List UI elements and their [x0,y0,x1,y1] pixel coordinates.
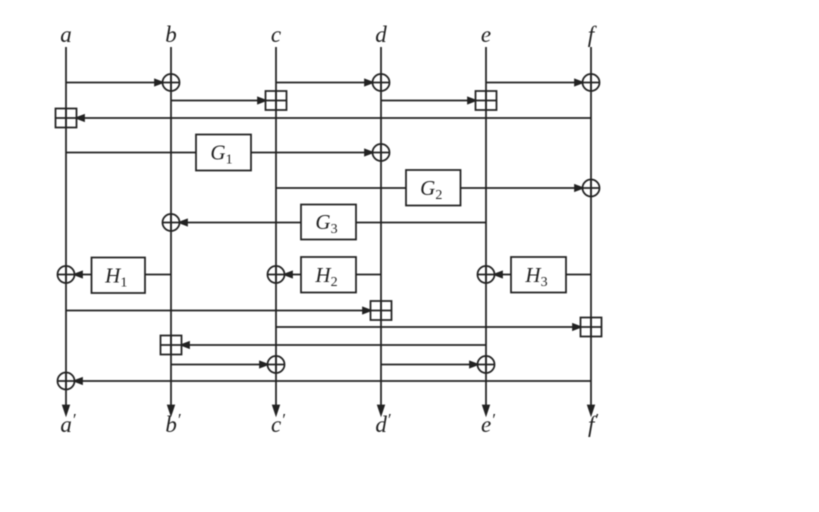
svg-text:e′: e′ [481,410,495,437]
svg-text:c′: c′ [271,410,285,437]
xor at a row12 [58,373,75,390]
svg-text:c: c [271,22,281,47]
xor at c row7 [268,266,285,283]
xor at b row1 [163,74,180,91]
xor at d row4 [373,144,390,161]
wire b to xor at c [171,362,268,368]
svg-text:d′: d′ [375,410,391,437]
svg-text:b: b [165,22,177,47]
wire a to add at d [66,308,371,314]
wire a to xor at b [66,80,163,86]
wire e to G3 [356,222,486,224]
wire vertical line f [588,47,594,415]
svg-text:d: d [375,22,387,47]
xor at d row1 [373,74,390,91]
svg-text:e: e [481,22,491,47]
function box G3 [301,205,356,240]
wire f to add at a [77,115,592,121]
wire f to xor at a [75,378,592,384]
wire H1 to xor at a [75,272,92,278]
function box H3 [511,257,566,293]
svg-text:a′: a′ [60,410,76,437]
wire vertical line b [168,47,174,415]
wire c to G2 [276,187,406,189]
wire G2 to xor at f [461,185,583,191]
wire vertical line d [378,47,384,415]
xor at a row7 [58,266,75,283]
xor at c row11 [268,356,285,373]
wire vertical line c [273,47,279,415]
wire e to add at b [182,342,487,348]
wire f to H3 [566,274,591,276]
wire c to xor at d [276,80,373,86]
wire a to G1 [66,152,196,154]
wire e to xor at f [486,80,583,86]
wire b to H1 [145,274,171,276]
xor at e row7 [478,266,495,283]
modular-add box at b row10 [161,336,182,355]
wire c to add at f [276,324,581,330]
wire G3 to xor at b [180,220,302,226]
wire d to xor at e [381,362,478,368]
wire H2 to xor at c [285,272,302,278]
wire G1 to xor at d [251,150,373,156]
svg-text:b′: b′ [165,410,181,437]
modular-add box at d row8 [371,301,392,320]
function box G1 [196,135,251,171]
wire b to add at c [171,98,266,104]
wire vertical line a [63,47,69,415]
wire d to add at e [381,98,476,104]
svg-text:a: a [60,22,72,47]
modular-add box at a row3 [56,109,77,128]
svg-text:f′: f′ [588,410,598,437]
wire H3 to xor at e [495,272,512,278]
function box H2 [301,257,356,293]
xor at b row6 [163,214,180,231]
xor at f row1 [583,74,600,91]
xor at e row11 [478,356,495,373]
modular-add box at e row2 [476,91,497,110]
function box H1 [92,258,146,294]
xor at f row5 [583,180,600,197]
function box G2 [406,170,461,206]
wire d to H2 [356,274,381,276]
svg-text:f: f [588,22,598,47]
modular-add box at f row9 [581,318,602,337]
modular-add box at c row2 [266,91,287,110]
wire vertical line e [483,47,489,415]
